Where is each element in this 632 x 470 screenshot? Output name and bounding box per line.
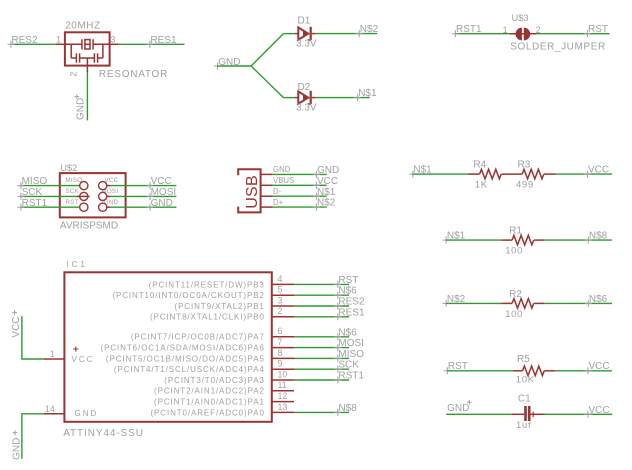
svg-text:RESONATOR: RESONATOR xyxy=(99,69,168,80)
svg-text:GND: GND xyxy=(76,98,87,120)
svg-text:1: 1 xyxy=(503,25,508,35)
svg-text:7: 7 xyxy=(278,337,283,347)
svg-text:N$1: N$1 xyxy=(358,88,377,99)
svg-text:100: 100 xyxy=(505,246,523,257)
svg-text:VCC: VCC xyxy=(589,405,610,416)
svg-text:8: 8 xyxy=(278,348,283,358)
svg-text:(PCINT7/ICP/OC0B/ADC7)PA7: (PCINT7/ICP/OC0B/ADC7)PA7 xyxy=(131,333,265,342)
svg-text:GND: GND xyxy=(317,165,339,176)
svg-text:N$6: N$6 xyxy=(338,286,357,297)
svg-text:VCC: VCC xyxy=(588,165,609,176)
svg-text:RES1: RES1 xyxy=(150,35,177,46)
svg-text:(PCINT5/OC1B/MISO/DO/ADC5)PA5: (PCINT5/OC1B/MISO/DO/ADC5)PA5 xyxy=(106,354,265,363)
svg-text:R3: R3 xyxy=(518,159,531,170)
svg-text:RST1: RST1 xyxy=(456,24,482,35)
svg-text:RST: RST xyxy=(588,24,608,35)
svg-text:RST: RST xyxy=(338,275,358,286)
svg-text:C1: C1 xyxy=(518,394,531,405)
svg-text:3: 3 xyxy=(278,295,283,305)
svg-text:13: 13 xyxy=(278,402,288,412)
svg-text:N$2: N$2 xyxy=(317,198,336,209)
svg-text:MISO: MISO xyxy=(22,176,48,187)
svg-text:SCK: SCK xyxy=(338,360,359,371)
svg-text:5: 5 xyxy=(278,285,283,295)
svg-text:RST1: RST1 xyxy=(22,198,48,209)
svg-text:USB: USB xyxy=(244,175,261,209)
svg-text:(PCINT4/T1/SCL/USCK/ADC4)PA4: (PCINT4/T1/SCL/USCK/ADC4)PA4 xyxy=(114,365,265,374)
svg-text:RES2: RES2 xyxy=(11,35,38,46)
svg-text:1: 1 xyxy=(56,35,61,45)
svg-text:14: 14 xyxy=(45,404,55,414)
svg-text:1uf: 1uf xyxy=(516,420,531,431)
svg-text:GND: GND xyxy=(273,165,291,174)
svg-text:2: 2 xyxy=(68,72,78,77)
svg-text:SCK: SCK xyxy=(65,188,79,195)
svg-text:D1: D1 xyxy=(298,15,311,26)
svg-text:11: 11 xyxy=(278,380,287,390)
svg-text:GND: GND xyxy=(447,403,469,414)
svg-text:R1: R1 xyxy=(509,226,522,237)
svg-text:ATTINY44-SSU: ATTINY44-SSU xyxy=(63,428,144,439)
svg-text:(PCINT6/OC1A/SDA/MOSI/ADC6)PA6: (PCINT6/OC1A/SDA/MOSI/ADC6)PA6 xyxy=(101,344,265,353)
svg-text:100: 100 xyxy=(505,309,523,320)
svg-text:D-: D- xyxy=(273,187,282,196)
svg-text:N$8: N$8 xyxy=(589,231,608,242)
svg-text:U$3: U$3 xyxy=(512,13,529,23)
svg-text:3.3V: 3.3V xyxy=(296,38,317,49)
svg-text:D2: D2 xyxy=(298,82,311,93)
svg-text:VCC: VCC xyxy=(589,361,610,372)
svg-text:3.3V: 3.3V xyxy=(296,103,317,114)
svg-text:SOLDER_JUMPER: SOLDER_JUMPER xyxy=(510,42,606,53)
svg-text:R4: R4 xyxy=(473,159,486,170)
svg-text:(PCINT11/RESET/DW)PB3: (PCINT11/RESET/DW)PB3 xyxy=(149,280,265,289)
svg-text:6: 6 xyxy=(278,326,283,336)
svg-text:U$2: U$2 xyxy=(60,163,77,173)
svg-text:2: 2 xyxy=(278,306,283,316)
svg-text:(PCINT9/XTAL2)PB1: (PCINT9/XTAL2)PB1 xyxy=(175,302,265,311)
svg-text:R5: R5 xyxy=(517,354,530,365)
svg-text:2: 2 xyxy=(536,25,541,35)
svg-text:GND: GND xyxy=(151,198,173,209)
svg-text:VBUS: VBUS xyxy=(273,176,294,185)
svg-text:MOSI: MOSI xyxy=(338,338,364,349)
svg-text:3: 3 xyxy=(111,35,116,45)
svg-text:(PCINT8/XTAL1/CLKI)PB0: (PCINT8/XTAL1/CLKI)PB0 xyxy=(150,313,265,322)
svg-text:20MHZ: 20MHZ xyxy=(65,21,101,32)
svg-text:AVRISPSMD: AVRISPSMD xyxy=(60,221,118,232)
svg-text:10K: 10K xyxy=(516,374,535,385)
svg-text:MISO: MISO xyxy=(338,349,364,360)
svg-text:(PCINT1/AIN0/ADC1)PA1: (PCINT1/AIN0/ADC1)PA1 xyxy=(154,398,265,407)
svg-text:10: 10 xyxy=(278,369,288,379)
svg-text:N$6: N$6 xyxy=(338,327,357,338)
svg-text:VCC: VCC xyxy=(72,355,95,364)
svg-text:VCC: VCC xyxy=(317,176,338,187)
svg-text:(PCINT10/INT0/OC0A/CKOUT)PB2: (PCINT10/INT0/OC0A/CKOUT)PB2 xyxy=(112,291,264,300)
svg-text:R2: R2 xyxy=(509,289,522,300)
svg-text:N$2: N$2 xyxy=(360,24,379,35)
svg-text:D+: D+ xyxy=(273,198,284,207)
svg-text:4: 4 xyxy=(278,274,283,284)
svg-text:9: 9 xyxy=(278,359,283,369)
svg-text:GND: GND xyxy=(11,438,22,460)
svg-text:N$1: N$1 xyxy=(317,187,336,198)
svg-text:N$6: N$6 xyxy=(589,294,608,305)
svg-text:N$8: N$8 xyxy=(338,403,357,414)
svg-text:GND: GND xyxy=(75,409,99,418)
svg-text:RST1: RST1 xyxy=(338,371,364,382)
svg-text:RST: RST xyxy=(65,199,78,206)
svg-text:VCC: VCC xyxy=(11,316,22,337)
svg-text:(PCINT0/AREF/ADC0)PA0: (PCINT0/AREF/ADC0)PA0 xyxy=(150,408,264,417)
svg-text:12: 12 xyxy=(278,391,288,401)
svg-text:SCK: SCK xyxy=(22,187,43,198)
svg-text:1: 1 xyxy=(50,349,55,359)
svg-text:1K: 1K xyxy=(475,180,488,191)
svg-text:(PCINT2/AIN1/ADC2)PA2: (PCINT2/AIN1/ADC2)PA2 xyxy=(154,387,265,396)
svg-text:MOSI: MOSI xyxy=(151,187,177,198)
svg-text:499: 499 xyxy=(516,180,534,191)
svg-text:RES2: RES2 xyxy=(338,297,365,308)
svg-text:IC1: IC1 xyxy=(67,259,88,269)
svg-text:RES1: RES1 xyxy=(338,307,365,318)
svg-text:VCC: VCC xyxy=(151,176,172,187)
svg-text:(PCINT3/T0/ADC3)PA3: (PCINT3/T0/ADC3)PA3 xyxy=(164,376,265,385)
